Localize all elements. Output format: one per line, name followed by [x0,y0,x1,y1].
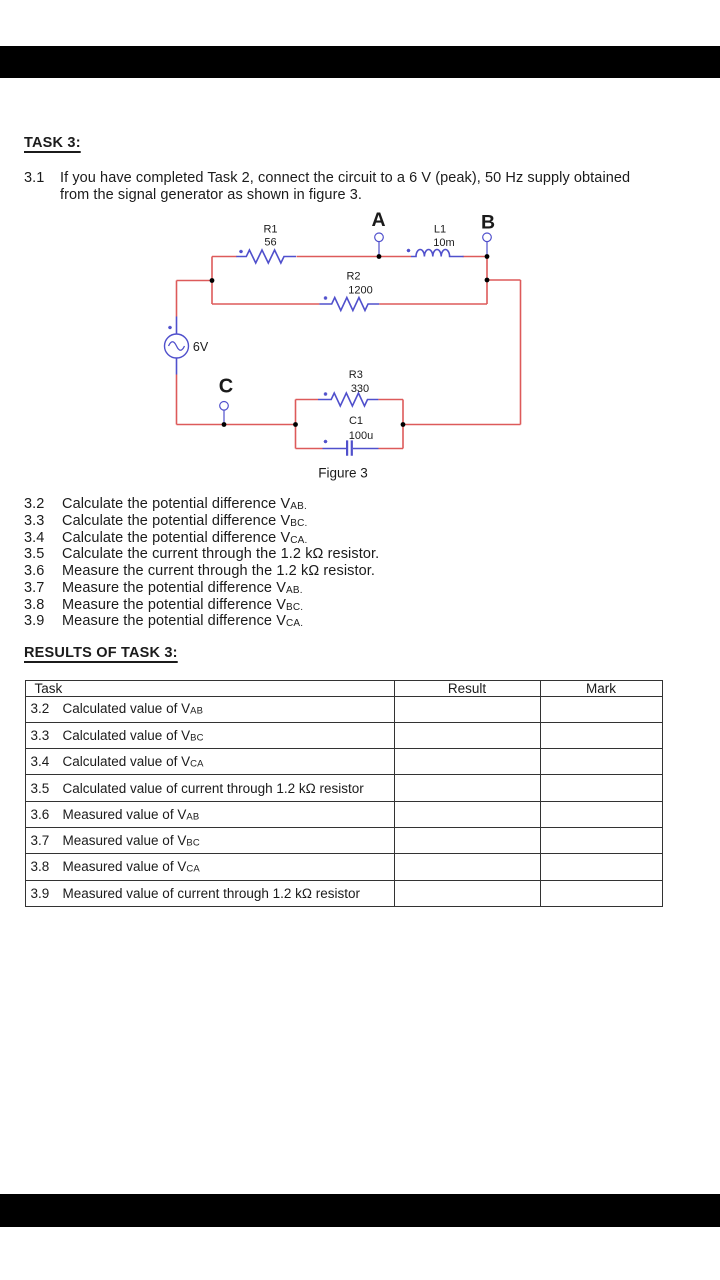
node C terminal circle and stem [223,410,225,424]
node B terminal circle and stem [486,242,488,257]
wire top-left (corner to R1) [212,256,237,258]
wire L1 to node B [463,256,487,258]
junction node A [377,254,382,259]
wire branch to source (left) [177,280,213,282]
wire source bottom drop [176,375,178,425]
wire block top edge left stub [296,399,319,401]
svg-text:R2: R2 [346,271,360,283]
svg-text:330: 330 [351,383,369,395]
list items 3.2 - 3.9 [24,496,307,512]
heading TASK 3: [24,135,81,151]
wire block top edge right stub [378,399,403,401]
svg-text:R1: R1 [263,224,277,236]
resistor R2 [319,298,379,311]
pin marker R1 [239,250,243,254]
paragraph 3.1 number [24,170,44,187]
heading RESULTS OF TASK 3: [24,645,178,661]
node A terminal circle and stem [378,242,380,257]
capacitor C1 leads [323,448,379,450]
svg-text:A: A [371,209,385,231]
wire block bottom edge right stub [379,448,404,450]
wire source top drop [176,281,178,317]
wire parallel-block right edge [402,400,404,449]
junction block left [293,422,298,427]
wire left vertical (top corner down to R2 row) [211,257,213,305]
wire block to right vertical [403,424,521,426]
junction at left branch [210,278,215,283]
pin marker C1 [324,440,328,444]
svg-text:1200: 1200 [348,285,372,297]
wire R1 to node A [297,256,380,258]
pin marker R3 [324,392,328,396]
AC source V1 sine [169,342,185,351]
AC source V1 circle [165,334,189,358]
wire block bottom edge left stub [296,448,323,450]
junction right branch [485,278,490,283]
results table [25,680,663,907]
AC source V1 leads [176,317,178,375]
inductor L1 [411,250,464,257]
svg-text:L1: L1 [434,224,446,236]
capacitor C1 plates [347,440,352,455]
resistor R1 [236,250,296,263]
top black bar [0,46,720,78]
svg-text:B: B [481,212,495,234]
resistor R3 [318,393,378,406]
paragraph 3.1 text [60,170,630,204]
circuit schematic Figure 3 [0,200,720,490]
pin marker V1 [168,326,172,330]
svg-text:Figure 3: Figure 3 [318,466,368,481]
junction node B [485,254,490,259]
svg-text:R3: R3 [349,369,363,381]
svg-text:C1: C1 [349,415,363,427]
wire node A to L1 [379,256,411,258]
wire R2 row right [379,303,487,305]
wire node B vertical down [486,257,488,305]
svg-text:56: 56 [264,237,276,249]
pin marker R2 [324,296,328,300]
wire parallel-block left edge [295,400,297,449]
junction block right [401,422,406,427]
pin marker L1 [407,249,411,253]
junction node C [222,422,227,427]
svg-text:100u: 100u [349,430,373,442]
svg-text:C: C [219,376,233,398]
wire branch right from B [487,279,521,281]
wire R2 row left [212,303,319,305]
bottom black bar [0,1194,720,1227]
svg-text:6V: 6V [193,340,209,354]
wire bottom-left horizontal [177,424,296,426]
wire right vertical [520,280,522,425]
svg-text:10m: 10m [433,237,454,249]
